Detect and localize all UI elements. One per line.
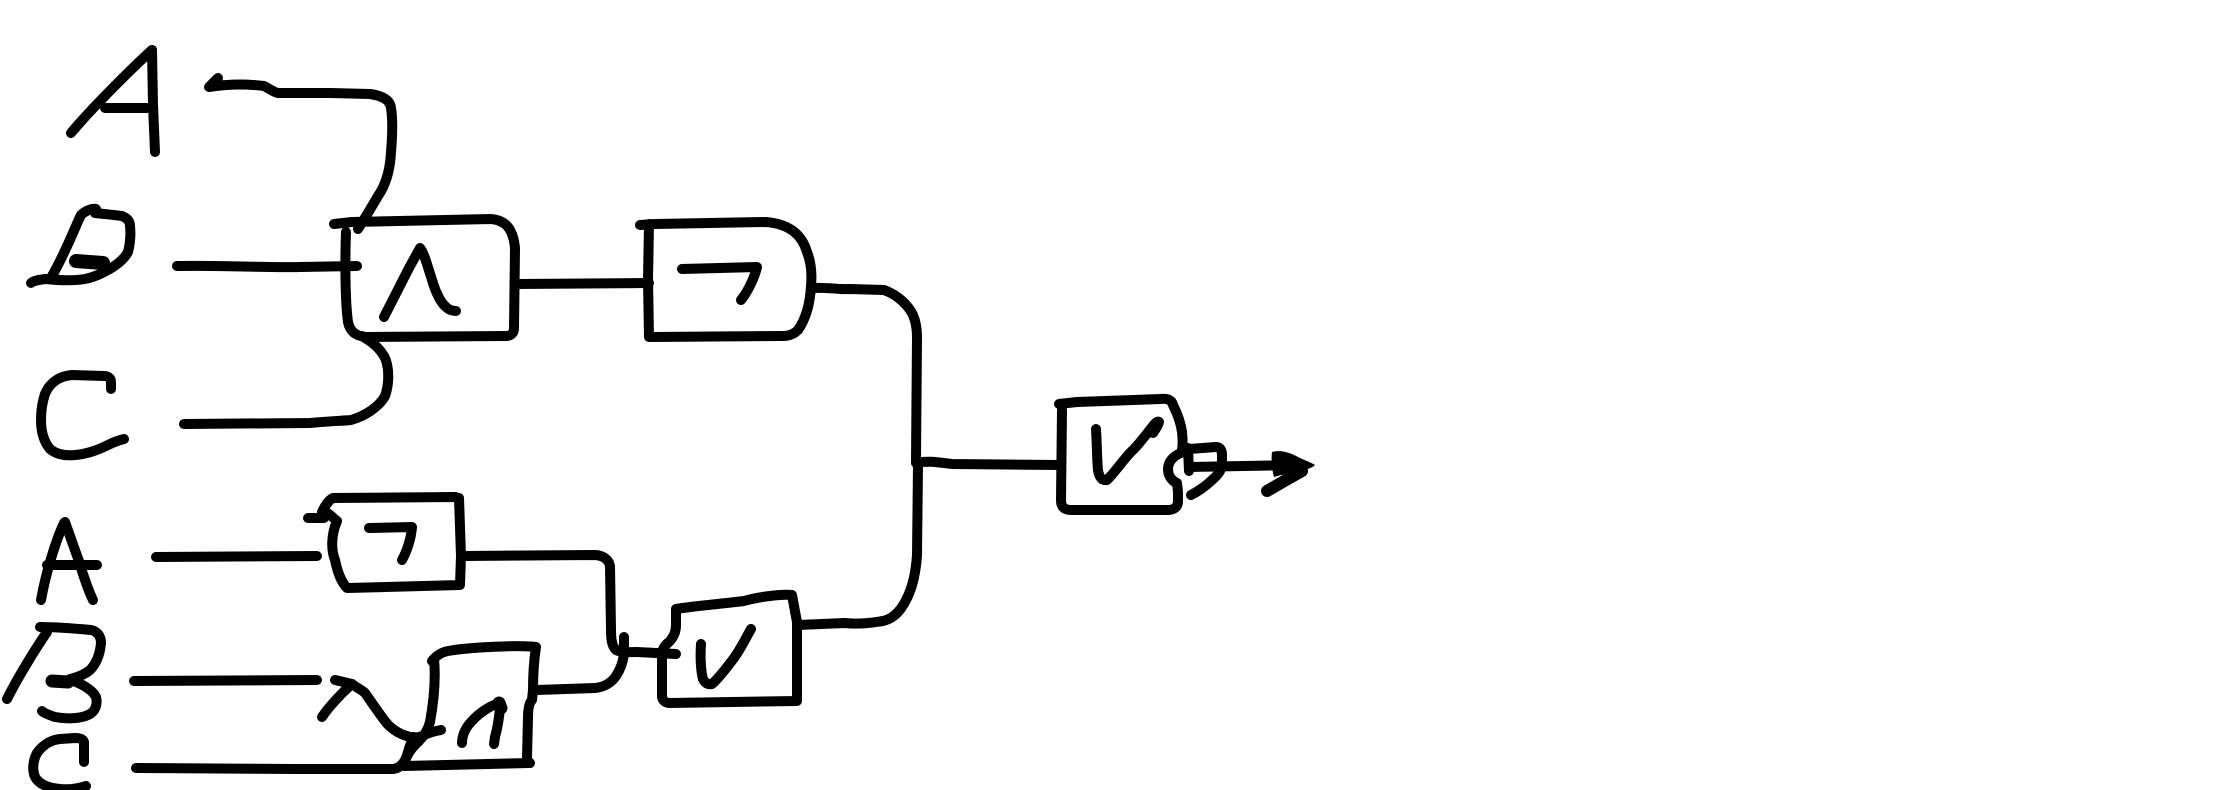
NOT symbol inside U3 — [369, 527, 412, 560]
wire from input C to AND gate U1 — [184, 336, 388, 424]
wire from lower input B toward AND gate U6 — [134, 680, 317, 681]
small appendix box at output of U5 — [1188, 447, 1222, 495]
AND gate U1 box — [334, 219, 515, 337]
input label B (top) — [31, 209, 130, 283]
OR symbol inside U4 — [701, 629, 751, 684]
output arrow — [1189, 451, 1315, 491]
output OR gate U5 box — [1059, 399, 1183, 510]
wire from lower input C to AND gate U6 — [136, 737, 414, 769]
wire from AND gate U1 to NOT gate U2 — [517, 283, 649, 284]
wire from NOT gate U2 down to junction — [813, 288, 917, 460]
OR symbol inside U5 — [1096, 422, 1159, 481]
wire from input B to AND gate U1 — [177, 266, 357, 267]
OR gate U4 box — [662, 595, 797, 703]
input label A (bottom) — [41, 522, 97, 600]
input label A (top) — [71, 50, 155, 152]
squiggle arrow where B wire enters AND gate U6 — [322, 680, 441, 738]
wire from lower input A to NOT gate U3 — [156, 556, 317, 557]
wire from AND gate U6 up to OR gate U4 input — [537, 637, 624, 690]
AND symbol inside U1 — [384, 248, 456, 317]
NOT gate U3 box — [308, 497, 461, 588]
NOT symbol inside U2 — [682, 267, 757, 300]
input label C (bottom) — [33, 738, 86, 789]
AND gate U6 box (tilted) — [404, 646, 536, 766]
wire from junction to output OR gate U5 — [916, 462, 1060, 465]
input label C (top) — [41, 375, 124, 455]
AND symbol inside U6 — [462, 703, 501, 744]
input label B (bottom) — [7, 627, 101, 718]
wire from input A to AND gate U1 — [209, 78, 392, 229]
wire from OR gate U4 up to junction — [798, 465, 918, 625]
NOT gate U2 box — [640, 222, 811, 337]
wire from NOT gate U3 to OR gate U4 — [465, 555, 676, 654]
